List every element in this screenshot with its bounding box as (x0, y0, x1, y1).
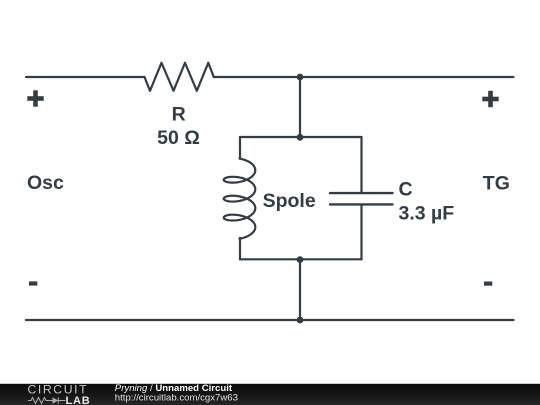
wire bottom center drop (299, 259, 301, 320)
node junction loop top (297, 134, 304, 141)
svg-text:Osc: Osc (27, 172, 64, 194)
logo resistor-diode symbol (28, 397, 66, 403)
svg-text:LAB: LAB (66, 395, 91, 405)
wire top rail right (214, 76, 514, 78)
wire capacitor top lead (360, 137, 362, 192)
node junction loop bottom (297, 256, 304, 263)
wire capacitor bottom lead (360, 206, 362, 260)
svg-text:C: C (399, 179, 413, 201)
inductor Spole (224, 159, 256, 239)
svg-text:R: R (172, 103, 186, 125)
wire loop top (240, 136, 362, 138)
wire loop bottom (240, 258, 362, 260)
wire inductor top lead (239, 137, 241, 159)
capacitor C plates (330, 193, 393, 204)
plus terminal right (482, 91, 498, 107)
wire bottom rail (26, 319, 514, 321)
svg-text:3.3 µF: 3.3 µF (399, 202, 455, 224)
svg-text:50 Ω: 50 Ω (157, 127, 200, 149)
minus terminal left (29, 281, 37, 285)
node junction top (297, 74, 304, 81)
wire inductor bottom lead (239, 238, 241, 259)
minus terminal right (484, 282, 492, 286)
svg-text:TG: TG (483, 172, 510, 194)
plus terminal left (27, 90, 43, 106)
svg-text:Spole: Spole (263, 190, 316, 212)
wire top center drop (299, 77, 301, 137)
wire top rail left (26, 76, 145, 78)
svg-text:http://circuitlab.com/cgx7w63: http://circuitlab.com/cgx7w63 (115, 392, 238, 403)
node junction bottom (297, 317, 304, 324)
resistor R (145, 63, 214, 91)
